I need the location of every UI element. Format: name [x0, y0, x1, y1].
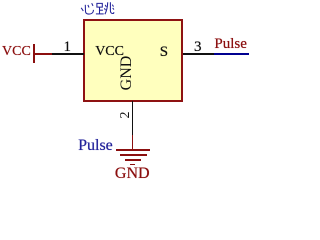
power port GND text [115, 166, 150, 182]
跳 足 base [96, 13, 104, 15]
心 left dot [81, 8, 83, 11]
ground bar 1 [116, 149, 150, 151]
power port VCC text [2, 45, 31, 59]
pin 3 wire [183, 53, 214, 55]
sheet entry GND (inside box, rotated) [119, 55, 135, 90]
跳 足 top box [97, 3, 102, 7]
pin number 1 [64, 40, 72, 55]
跳 兆 right vertical hook [110, 2, 114, 13]
ground bar 2 [120, 154, 147, 156]
net label Pulse (right) [214, 37, 247, 52]
跳 兆 left sweep [105, 2, 108, 14]
sheet symbol U1 (heartbeat block) [83, 19, 183, 101]
ground bar 3 [125, 159, 140, 161]
sheet entry VCC (inside box) [95, 45, 124, 59]
跳 足 vertical [99, 7, 101, 14]
pin number 2 (rotated) [119, 111, 133, 118]
跳 兆 right dots [112, 5, 113, 7]
power port VCC stub [35, 53, 52, 55]
心 hook [85, 5, 93, 14]
wire (blue, net Pulse right) [214, 53, 249, 55]
pin 2 wire (vertical) [132, 101, 134, 135]
title 心跳 (sheet name, drawn as SVG strokes) [78, 1, 116, 18]
sheet entry S (inside box) [160, 45, 168, 60]
心 middle dot [88, 5, 89, 8]
net label Pulse (bottom) [78, 138, 113, 154]
pin 1 wire [52, 53, 84, 55]
pin number 3 [194, 40, 202, 55]
跳 兆 left dots [105, 5, 106, 7]
power port GND stub (vertical) [132, 135, 134, 150]
心 right dot [92, 3, 93, 6]
ground bar 4 [130, 164, 135, 166]
power port VCC bar [33, 44, 35, 63]
跳 足 mid tick [100, 9, 103, 11]
